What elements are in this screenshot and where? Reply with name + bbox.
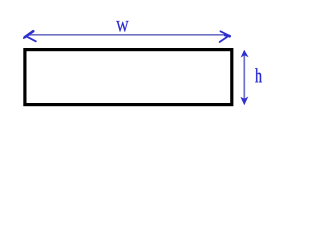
width dimension line <box>29 34 224 36</box>
label h <box>255 68 262 82</box>
height arrowhead bottom <box>240 97 248 106</box>
width arrowhead left <box>24 31 36 41</box>
height dimension line <box>243 54 245 99</box>
height arrowhead top <box>241 50 249 58</box>
width arrowhead right <box>220 31 230 42</box>
rectangle bar (W x h) <box>25 50 232 105</box>
label W <box>116 21 128 32</box>
